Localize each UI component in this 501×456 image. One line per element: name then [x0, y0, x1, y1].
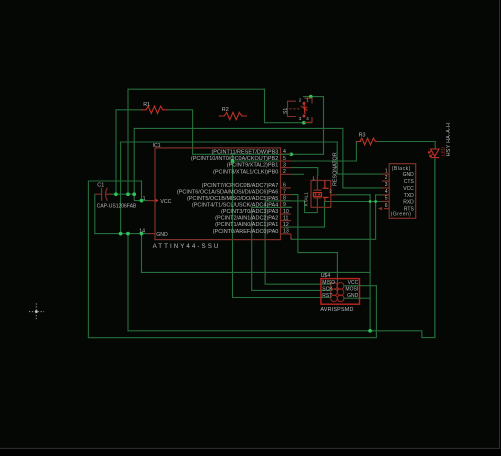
junction VCC row x128 [126, 192, 130, 196]
wire LED cathode down [434, 159, 436, 338]
svg-text:S1: S1 [283, 108, 289, 114]
resonator XTAL1 [311, 175, 337, 212]
svg-text:(PCINT9/XTAL2)PB1: (PCINT9/XTAL2)PB1 [227, 163, 279, 169]
junction VCC row x134 [132, 192, 136, 196]
svg-text:R3: R3 [359, 133, 366, 139]
IC1 ATTINY44 box [155, 148, 281, 240]
ISP pin names [322, 280, 335, 299]
capacitor C1 [95, 188, 111, 201]
wire pin3 row to resonator top [291, 168, 318, 176]
wire GND row 233 [95, 233, 148, 235]
wire VCC rail to S1 bottom [265, 89, 312, 123]
wire R1 right to RESET row [167, 110, 192, 155]
FTDI pin numbers [385, 168, 388, 209]
svg-text:TXD: TXD [404, 193, 414, 199]
wire VCC left rail [88, 181, 141, 338]
svg-text:ATTINY44-SSU: ATTINY44-SSU [153, 243, 221, 250]
svg-text:VCC: VCC [348, 280, 359, 286]
FTDI pin leads [382, 174, 389, 209]
svg-text:C1: C1 [97, 183, 104, 189]
svg-text:MISO: MISO [322, 280, 335, 286]
wire TXD lead corner [376, 194, 382, 196]
wire GND ISP column [369, 195, 371, 331]
LED D1 [428, 149, 439, 158]
wire pin1 VCC branch to left rail [141, 181, 143, 201]
junction GND row x128 [126, 232, 130, 236]
svg-text:(PCINT2/AIN1/ADC2)PA2: (PCINT2/AIN1/ADC2)PA2 [215, 216, 278, 222]
wire VCC row 128 [134, 127, 343, 129]
resistor R2 [219, 112, 247, 119]
wire GND bottom rail [128, 159, 435, 338]
wire RST column [233, 154, 331, 297]
junction pin14 [140, 232, 144, 236]
svg-text:(PCINT10/INT0/OC0A/CKOUT)PB2: (PCINT10/INT0/OC0A/CKOUT)PB2 [191, 156, 278, 162]
wire C1 left to GND row [94, 194, 96, 233]
svg-text:(PCINT5/OC1B/MISO/DO/ADC5)PA5: (PCINT5/OC1B/MISO/DO/ADC5)PA5 [187, 196, 278, 202]
wire VCC bottom rail [88, 286, 376, 338]
svg-text:U$4: U$4 [321, 273, 331, 279]
svg-text:7: 7 [283, 189, 286, 195]
wire SCK pin9 row [252, 206, 292, 208]
junction pin4 RESET [289, 152, 293, 156]
svg-text:R1: R1 [143, 102, 150, 108]
svg-text:(PCINT7/ICP/OC0B/ADC7)PA7: (PCINT7/ICP/OC0B/ADC7)PA7 [202, 183, 279, 189]
svg-text:(Black): (Black) [392, 166, 411, 172]
wire pin2 stub [291, 173, 304, 175]
svg-text:MOSI: MOSI [345, 287, 358, 293]
wire ISP GND pin row [344, 297, 370, 299]
wire overlay pin4 lead [281, 154, 292, 227]
origin crosshair [29, 303, 44, 319]
svg-text:(PCINT0/AREF/ADC0)PA0: (PCINT0/AREF/ADC0)PA0 [213, 229, 279, 235]
svg-text:13: 13 [283, 229, 289, 235]
wire RXD row from resonator cap [325, 201, 382, 203]
FTDI pin names [403, 172, 415, 213]
wire pin8 jog to resonator pin1 [305, 201, 318, 213]
wire hidden RESET row to pin 4 and S1 [193, 153, 324, 155]
svg-text:(PCINT11/RESET/DW)PB3: (PCINT11/RESET/DW)PB3 [211, 149, 278, 155]
svg-text:2: 2 [329, 188, 332, 193]
svg-text:(PCINT3/T0/ADC3)PA3: (PCINT3/T0/ADC3)PA3 [221, 209, 278, 215]
resistor R1 [141, 106, 167, 113]
svg-text:(PCINT1/AIN0/ADC1)PA1: (PCINT1/AIN0/ADC1)PA1 [215, 222, 278, 228]
wire VCC row at C1 [112, 193, 135, 195]
wire GND column below 128 [127, 234, 129, 331]
junction S1 top [309, 95, 313, 99]
wire R3 to LED [377, 142, 435, 149]
wire VCC top rail [128, 88, 265, 90]
wire R1 left lead net [116, 110, 141, 194]
pin numbers right side [283, 149, 289, 235]
svg-text:CAP-US1206FAB: CAP-US1206FAB [97, 204, 137, 210]
junction RXD row x375 [374, 200, 377, 203]
wire MISO column [265, 201, 331, 284]
FTDI header J1 box [389, 164, 416, 219]
svg-text:RTS: RTS [404, 207, 415, 213]
wire GND column 120 [120, 142, 122, 234]
wire resonator pin2 to corner [337, 194, 371, 196]
svg-text:(PCINT6/OC1A/SDA/MOSI/DI/ADC6): (PCINT6/OC1A/SDA/MOSI/DI/ADC6)PA6 [177, 190, 278, 196]
IC1 pin 1 VCC lead [148, 199, 159, 203]
wire TXD to pin13 column [291, 195, 375, 239]
IC1 pin 13 lead bend [290, 234, 292, 239]
wire GND row 142 [121, 141, 338, 143]
ISP pads [331, 283, 344, 302]
wire MOSI pin7 route [291, 195, 337, 290]
svg-text:1: 1 [312, 176, 315, 181]
svg-text:HSY HA-A-H: HSY HA-A-H [446, 123, 452, 156]
svg-text:5: 5 [385, 196, 388, 202]
svg-text:VCC: VCC [160, 199, 171, 205]
svg-text:GND: GND [347, 293, 359, 299]
junction pin1 [140, 199, 144, 203]
svg-text:XTAL1: XTAL1 [304, 192, 310, 207]
wire GND pin14 column [141, 234, 143, 273]
ISP header U$4 box [321, 279, 360, 305]
wire GND to FTDI GND [337, 142, 382, 174]
junction GND row x120 [119, 232, 123, 236]
S1 pin numbers [299, 97, 310, 120]
junction RXD row x370 [369, 200, 372, 203]
IC1 right pin leads [281, 154, 291, 234]
svg-text:3: 3 [385, 182, 388, 188]
svg-text:11: 11 [283, 215, 288, 221]
wire S1 top to RESET column [304, 97, 324, 155]
svg-text:R2: R2 [222, 107, 229, 113]
junction GND rail [368, 329, 372, 333]
FTDI RTS arrow [378, 207, 383, 210]
svg-text:(PCINT4/T1/SCL/USCK/ADC4)PA4: (PCINT4/T1/SCL/USCK/ADC4)PA4 [192, 202, 278, 208]
svg-text:14: 14 [139, 229, 145, 235]
svg-text:CTS: CTS [404, 179, 415, 185]
svg-text:RESONATOR: RESONATOR [332, 152, 338, 186]
wire resonator to pin12 column [291, 202, 325, 228]
svg-text:RXD: RXD [403, 200, 414, 206]
svg-text:2: 2 [283, 169, 286, 175]
wire VCC jog to pin 1 [134, 128, 147, 200]
wire ISP VCC pin row [344, 285, 377, 287]
svg-text:4: 4 [385, 189, 388, 195]
svg-text:3: 3 [299, 116, 302, 121]
svg-text:1: 1 [143, 196, 146, 202]
svg-text:(PCINT8/XTAL1/CLKI)PB0: (PCINT8/XTAL1/CLKI)PB0 [213, 169, 278, 175]
junction pin5 row [231, 159, 235, 163]
svg-text:GND: GND [156, 232, 168, 238]
svg-text:GND: GND [403, 172, 415, 178]
svg-text:VCC: VCC [403, 186, 414, 192]
junction S1 bottom [302, 121, 306, 125]
svg-text:1: 1 [306, 97, 309, 102]
svg-text:4: 4 [306, 116, 309, 121]
resistor R3 [356, 138, 377, 145]
wire pin5 row to R3 [291, 142, 361, 162]
svg-text:2: 2 [385, 175, 388, 181]
wire VCC to FTDI VCC [343, 128, 382, 188]
svg-text:10: 10 [283, 209, 289, 215]
svg-text:2: 2 [299, 97, 302, 102]
svg-text:5: 5 [283, 156, 286, 162]
wire MISO pin8 inside box [265, 200, 305, 202]
svg-text:6: 6 [283, 183, 286, 189]
junction VCC row x116 [114, 192, 118, 196]
wire SCK column [252, 207, 331, 290]
svg-text:SCK: SCK [322, 287, 333, 293]
svg-text:RST: RST [322, 293, 332, 299]
wire pin5 hidden row [233, 160, 281, 162]
svg-text:1: 1 [385, 168, 388, 174]
svg-text:6: 6 [385, 203, 388, 209]
svg-text:AVRISPSMD: AVRISPSMD [320, 307, 353, 313]
IC1 pin 14 GND lead [148, 233, 156, 235]
wire GND row to ISP [142, 271, 371, 273]
svg-text:3: 3 [283, 162, 286, 168]
svg-text:IC1: IC1 [153, 143, 161, 149]
switch S1 [288, 101, 302, 116]
wire VCC column from top rail [127, 89, 129, 194]
